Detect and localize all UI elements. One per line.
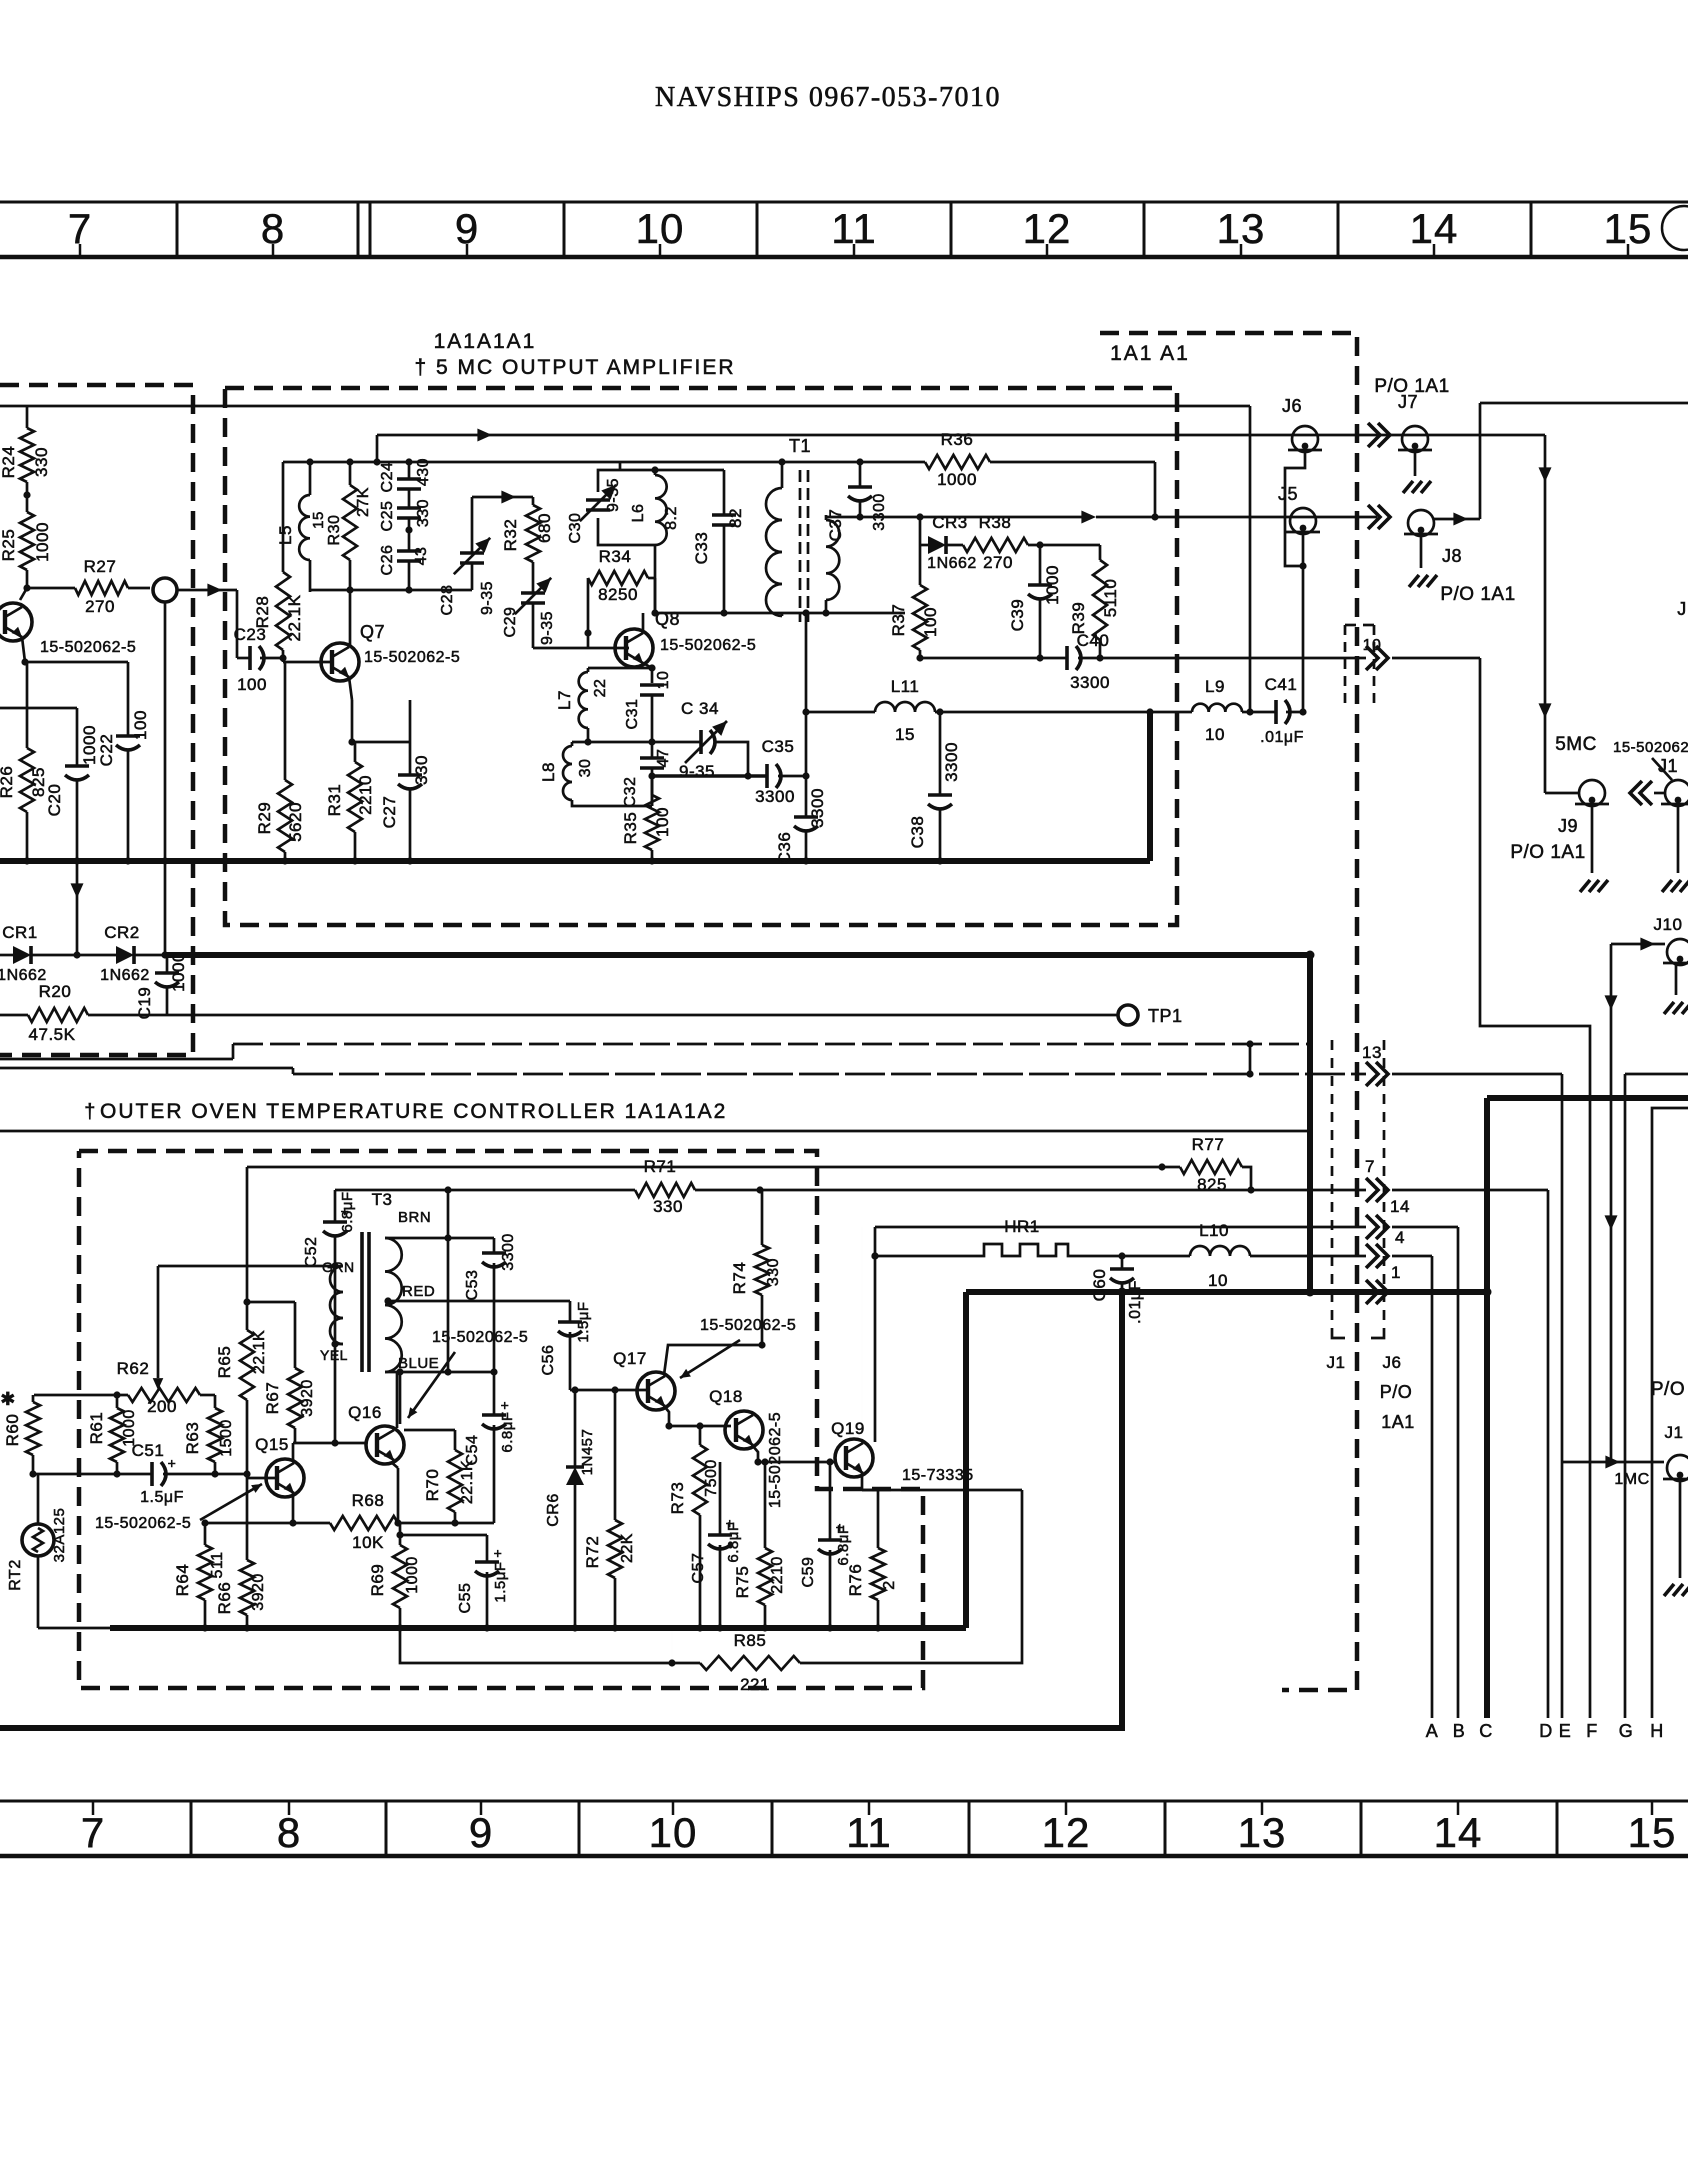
outer oven temperature controller title <box>84 1100 727 1123</box>
resistor R37 <box>889 545 940 658</box>
svg-text:1000: 1000 <box>80 725 99 765</box>
resistor R70 <box>404 1430 476 1523</box>
svg-text:270: 270 <box>85 597 115 616</box>
wire Q8 base line <box>533 645 629 648</box>
svg-text:R38: R38 <box>979 513 1012 532</box>
svg-text:F: F <box>1586 1721 1598 1741</box>
svg-text:L6: L6 <box>630 504 647 523</box>
bottom coordinate ruler band <box>0 1801 1688 1856</box>
svg-text:1000: 1000 <box>1043 565 1062 605</box>
capacitor C39 <box>1008 545 1062 658</box>
svg-text:9-35: 9-35 <box>479 581 496 615</box>
top ruler numbers <box>68 205 1653 257</box>
svg-text:15-502062-5: 15-502062-5 <box>40 639 136 656</box>
label P/O 1A1 top <box>1374 376 1449 397</box>
svg-text:3920: 3920 <box>299 1379 316 1417</box>
svg-text:8250: 8250 <box>598 585 638 604</box>
svg-text:1000: 1000 <box>404 1556 421 1594</box>
wire J7 down to J9 <box>1539 435 1579 793</box>
node CR1/CR2 <box>31 951 116 958</box>
svg-text:30: 30 <box>577 759 594 778</box>
controller ground bus heavy <box>110 1625 966 1631</box>
svg-text:1A1: 1A1 <box>1381 1412 1415 1432</box>
svg-text:C24: C24 <box>379 462 396 493</box>
capacitor C51 <box>132 1441 184 1506</box>
wire into amplifier with arrow <box>177 584 237 659</box>
wire C28 to R32 with arrow <box>472 491 533 504</box>
capacitor C55 <box>400 1535 509 1628</box>
diode CR1 <box>0 923 47 984</box>
wire Q19 collector <box>862 1227 879 1442</box>
svg-text:R24: R24 <box>0 446 18 479</box>
capacitor C37 <box>826 462 888 541</box>
svg-text:3300: 3300 <box>500 1233 517 1271</box>
svg-text:C26: C26 <box>379 545 396 576</box>
label Q15 part number <box>95 1484 262 1532</box>
svg-text:R26: R26 <box>0 766 16 799</box>
svg-text:15: 15 <box>310 511 327 529</box>
resistor R67 <box>247 1302 316 1443</box>
svg-text:R35: R35 <box>621 812 640 845</box>
svg-text:J5: J5 <box>1278 484 1298 504</box>
resistor R73 <box>668 1426 720 1628</box>
connector J1 bottom right <box>1663 1423 1688 1596</box>
resistor R29 <box>255 662 305 861</box>
svg-text:11: 11 <box>846 1809 892 1856</box>
svg-text:5620: 5620 <box>286 802 305 842</box>
label J9 part number <box>1613 739 1688 780</box>
capacitor C33 <box>655 470 745 613</box>
svg-text:Q15: Q15 <box>255 1435 289 1454</box>
wire Q6 emitter to C22 <box>25 662 128 730</box>
svg-text:H: H <box>1650 1721 1664 1741</box>
svg-text:C40: C40 <box>1077 631 1110 650</box>
connector J1 right edge <box>1654 756 1688 892</box>
detector bottom rail <box>916 654 1103 661</box>
controller bus dots <box>201 1624 881 1631</box>
svg-text:3300: 3300 <box>808 788 827 828</box>
wire bottom rail y776 <box>648 772 766 806</box>
variable capacitor C29 <box>502 578 556 645</box>
svg-text:C59: C59 <box>800 1557 817 1588</box>
svg-text:C56: C56 <box>540 1345 557 1376</box>
resistor R20 <box>0 982 167 1044</box>
wire Q16 emitter <box>391 1462 402 1527</box>
svg-text:R27: R27 <box>84 557 117 576</box>
svg-text:1000: 1000 <box>937 470 977 489</box>
resistor R25 <box>0 495 52 588</box>
svg-text:1A1 A1: 1A1 A1 <box>1110 342 1190 365</box>
svg-text:15-502062-5: 15-502062-5 <box>660 637 756 654</box>
svg-text:15-502062-5: 15-502062-5 <box>364 649 460 666</box>
svg-text:13: 13 <box>1238 1809 1287 1856</box>
svg-text:C39: C39 <box>1008 599 1027 632</box>
wire controller feed y1167 <box>247 1166 1162 1169</box>
svg-text:9-35: 9-35 <box>679 762 715 781</box>
wire YEL to Q16 base <box>331 1340 338 1446</box>
svg-text:.01μF: .01μF <box>1260 729 1304 746</box>
capacitor C52 <box>303 1190 356 1345</box>
svg-text:OUTER OVEN TEMPERATURE CONT: OUTER OVEN TEMPERATURE CONTROLLER 1A1A1A… <box>100 1100 727 1123</box>
node diode rail / bus <box>161 951 168 958</box>
svg-text:.01μF: .01μF <box>1127 1280 1144 1324</box>
wire emitter node <box>348 700 410 746</box>
connector J8 <box>1404 510 1462 587</box>
inductor L10 <box>1122 1221 1366 1290</box>
labels J1 J6 P/O 1A1 <box>1327 1353 1415 1432</box>
svg-text:C29: C29 <box>502 607 519 638</box>
capacitor C31 <box>624 671 672 742</box>
svg-text:C27: C27 <box>380 796 399 829</box>
capacitor C20 <box>45 708 99 861</box>
wire L8/C32 to rail <box>651 776 654 806</box>
heavy wire y1098 <box>1487 1095 1688 1101</box>
wire Q17 emitter <box>664 1406 673 1430</box>
svg-text:R85: R85 <box>734 1631 767 1650</box>
node Q8 emitter <box>648 664 655 671</box>
svg-text:J1: J1 <box>1658 756 1678 776</box>
node R38/C39 <box>1036 541 1043 548</box>
node divider/bus <box>1118 1288 1127 1297</box>
resistor R77 <box>1158 1135 1254 1194</box>
svg-text:C32: C32 <box>622 777 639 808</box>
svg-text:R62: R62 <box>117 1359 150 1378</box>
wire top rail y406 <box>0 406 1254 716</box>
wire pin10 line <box>1177 658 1590 1718</box>
svg-text:C31: C31 <box>624 699 641 730</box>
svg-text:R32: R32 <box>501 519 520 552</box>
label Q17 part number <box>680 1317 796 1378</box>
svg-text:C30: C30 <box>567 513 584 544</box>
wire Q17 collector <box>664 1345 762 1375</box>
svg-text:Q8: Q8 <box>655 609 680 629</box>
svg-text:CR1: CR1 <box>2 923 38 942</box>
svg-text:10: 10 <box>655 671 672 690</box>
svg-text:Q18: Q18 <box>709 1387 743 1406</box>
heavy divider loop <box>0 1292 1122 1728</box>
chevron J6-J7 <box>1368 423 1390 447</box>
wire drop H <box>1651 1460 1654 1718</box>
potentiometer R62 <box>117 1359 200 1416</box>
svg-text:Q16: Q16 <box>348 1403 382 1422</box>
svg-text:1.5μF: 1.5μF <box>575 1301 592 1342</box>
heavy wire C drop <box>1484 1098 1490 1718</box>
svg-text:3300: 3300 <box>871 493 888 531</box>
resistor R61 <box>87 1395 138 1474</box>
resistor R30 <box>326 462 372 592</box>
svg-text:R65: R65 <box>215 1346 234 1379</box>
svg-text:15-502062-5: 15-502062-5 <box>700 1317 796 1334</box>
svg-text:1.5μF: 1.5μF <box>140 1489 184 1506</box>
wire T1 secondary top to detector <box>826 511 1155 524</box>
resistor R69 <box>368 1523 421 1628</box>
svg-text:47.5K: 47.5K <box>29 1025 76 1044</box>
svg-text:7: 7 <box>81 1809 105 1856</box>
svg-text:C53: C53 <box>464 1270 481 1301</box>
wire bus to diode rail with arrow <box>71 861 84 955</box>
wire drop A from pin4 <box>1431 1256 1434 1718</box>
resistor R27 <box>27 557 150 616</box>
wire Q16 collector <box>396 1372 399 1428</box>
node C23/R28/base <box>279 654 286 661</box>
svg-text:P/O: P/O <box>1380 1382 1413 1402</box>
capacitor C35 <box>755 737 806 806</box>
svg-text:1: 1 <box>1391 1263 1401 1282</box>
resistor R64 <box>173 1523 226 1628</box>
wire y1059 segment <box>0 1044 233 1059</box>
resistor R32 <box>501 497 554 592</box>
svg-text:C37: C37 <box>826 509 845 542</box>
svg-text:2: 2 <box>881 1580 898 1589</box>
svg-text:R66: R66 <box>215 1582 234 1615</box>
svg-text:R28: R28 <box>253 596 272 629</box>
capacitor C24 <box>379 458 432 493</box>
svg-text:E: E <box>1559 1721 1572 1741</box>
svg-text:C41: C41 <box>1265 675 1298 694</box>
svg-text:22.1K: 22.1K <box>285 594 304 641</box>
svg-text:1500: 1500 <box>218 1419 235 1457</box>
label Q19 part number <box>902 1467 974 1484</box>
svg-text:CR2: CR2 <box>104 923 140 942</box>
resistor R31 <box>325 742 375 861</box>
resistor R68 <box>201 1491 494 1552</box>
test point TP1 <box>1118 1005 1183 1026</box>
svg-text:C35: C35 <box>762 737 795 756</box>
svg-text:C57: C57 <box>690 1553 707 1584</box>
svg-text:R72: R72 <box>583 1536 602 1569</box>
wire tank bottom rail y590 <box>310 586 472 593</box>
svg-text:1N457: 1N457 <box>579 1429 596 1476</box>
svg-text:5110: 5110 <box>1101 579 1120 618</box>
svg-text:P/O 1A1: P/O 1A1 <box>1374 376 1449 397</box>
svg-text:R36: R36 <box>941 430 974 449</box>
capacitor C26 <box>379 518 430 590</box>
resistor R38 <box>963 513 1100 572</box>
svg-text:100: 100 <box>237 675 267 694</box>
resistor R34 <box>588 547 648 633</box>
svg-text:100: 100 <box>131 710 150 740</box>
svg-text:R69: R69 <box>368 1564 387 1597</box>
svg-text:✱: ✱ <box>0 1389 16 1409</box>
diode CR6 <box>545 1386 596 1628</box>
svg-text:15: 15 <box>895 725 915 744</box>
svg-text:R63: R63 <box>183 1422 202 1455</box>
svg-text:P/O: P/O <box>1651 1379 1685 1400</box>
svg-text:8.2: 8.2 <box>663 506 680 530</box>
pin 7 chevron <box>1365 1157 1388 1202</box>
bottom ruler numbers <box>81 1801 1677 1856</box>
pin 4 chevron <box>1366 1228 1432 1268</box>
document title NAVSHIPS 0967-053-7010 <box>655 82 1001 113</box>
top ruler corner circle <box>1662 206 1688 250</box>
wire Q8 emitter <box>643 663 652 680</box>
svg-text:TP1: TP1 <box>1148 1006 1183 1026</box>
rail junction dots <box>306 458 863 465</box>
svg-text:10: 10 <box>1208 1271 1228 1290</box>
wire L7 top rail <box>588 667 652 670</box>
node R25/R27 <box>23 584 30 591</box>
svg-text:7500: 7500 <box>703 1459 720 1497</box>
svg-text:R73: R73 <box>668 1482 687 1515</box>
transistor Q15 <box>247 1435 304 1497</box>
resistor R26 <box>0 662 48 861</box>
wire Q7 collector <box>349 592 352 647</box>
svg-text:+: + <box>501 1397 510 1413</box>
svg-text:1N662: 1N662 <box>100 967 150 984</box>
wire Q7 emitter <box>349 677 352 742</box>
svg-text:† 5 MC OUTPUT AMPLIFIER: † 5 MC OUTPUT AMPLIFIER <box>415 356 736 379</box>
svg-text:L9: L9 <box>1205 677 1225 696</box>
svg-text:22.1K: 22.1K <box>459 1460 476 1504</box>
svg-text:G: G <box>1619 1721 1634 1741</box>
wire Q8 collector vertical x806 <box>643 609 810 779</box>
wire Q18 emitter <box>752 1445 836 1466</box>
heater HR1 <box>976 1217 1076 1256</box>
inductor L8 <box>539 742 652 806</box>
svg-text:A: A <box>1426 1721 1439 1741</box>
heavy vertical x966 <box>963 1292 969 1628</box>
svg-text:J6: J6 <box>1383 1353 1402 1372</box>
wire Q17 base line <box>570 1386 648 1393</box>
diode CR3 <box>916 513 976 572</box>
svg-text:330: 330 <box>415 499 432 527</box>
wire BLUE line <box>385 1368 498 1424</box>
svg-text:L10: L10 <box>1199 1221 1229 1240</box>
label P/O right box <box>1651 1379 1685 1400</box>
wire drop G <box>1625 1074 1688 1718</box>
bottom connector labels <box>1426 1721 1664 1741</box>
wire R69 to R85 <box>400 1628 676 1667</box>
svg-text:R75: R75 <box>733 1566 752 1599</box>
svg-text:R37: R37 <box>889 604 908 637</box>
transistor Q7 <box>283 622 460 681</box>
svg-text:B: B <box>1453 1721 1466 1741</box>
svg-text:J10: J10 <box>1654 915 1683 934</box>
wire y1068 segment <box>0 1068 293 1074</box>
svg-text:1MC: 1MC <box>1614 1471 1649 1488</box>
svg-text:14: 14 <box>1434 1809 1483 1856</box>
svg-text:BRN: BRN <box>398 1209 431 1226</box>
svg-text:L5: L5 <box>276 525 295 545</box>
svg-text:C25: C25 <box>379 501 396 532</box>
resistor R74 <box>730 1190 782 1349</box>
svg-text:100: 100 <box>653 807 672 837</box>
wire HR1 line <box>871 1252 976 1259</box>
transformer T3 <box>320 1190 439 1372</box>
variable capacitor C30 and inductor L6 tank <box>567 462 680 613</box>
svg-text:C28: C28 <box>439 585 456 616</box>
capacitor C25 <box>379 489 432 531</box>
capacitor C40 <box>1067 631 1177 692</box>
svg-text:R60: R60 <box>3 1414 22 1447</box>
svg-text:CR3: CR3 <box>932 513 968 532</box>
wire Q19 emitter <box>862 1473 1022 1548</box>
svg-text:R31: R31 <box>325 784 344 817</box>
wire J10 down line <box>1605 944 1618 1448</box>
svg-text:10K: 10K <box>352 1533 384 1552</box>
wire Q15 emitter <box>289 1493 296 1527</box>
svg-text:C33: C33 <box>692 532 711 565</box>
svg-text:4: 4 <box>1395 1228 1405 1247</box>
label T3 part number <box>408 1329 528 1418</box>
svg-text:15-502062-5: 15-502062-5 <box>767 1412 784 1508</box>
resistor R71 <box>635 1157 695 1216</box>
diode CR2 <box>100 923 165 984</box>
capacitor C38 <box>908 712 961 861</box>
svg-text:430: 430 <box>415 458 432 486</box>
svg-text:330: 330 <box>765 1258 782 1286</box>
svg-text:C: C <box>1479 1721 1493 1741</box>
capacitor C53 <box>448 1233 517 1372</box>
svg-text:1.5μF: 1.5μF <box>492 1561 509 1602</box>
resistor R72 <box>583 1390 636 1628</box>
resistor R65 <box>215 1167 268 1474</box>
transistor Q18 <box>709 1387 763 1449</box>
svg-text:+: + <box>836 1519 845 1535</box>
svg-text:†: † <box>84 1101 96 1123</box>
resistor R76 <box>846 1490 898 1628</box>
resistor R66 <box>215 1474 267 1628</box>
heavy vertical x1310 <box>1306 951 1315 1297</box>
capacitor C32 <box>622 742 672 807</box>
svg-text:1A1A1A1: 1A1A1A1 <box>434 330 537 353</box>
svg-text:C36: C36 <box>775 832 794 865</box>
svg-text:C55: C55 <box>457 1583 474 1614</box>
svg-text:C 34: C 34 <box>681 699 719 718</box>
svg-text:C52: C52 <box>303 1237 320 1268</box>
resistor R24 <box>0 406 51 495</box>
svg-text:7: 7 <box>1365 1157 1375 1176</box>
resistor R63 <box>183 1408 235 1474</box>
connector J10 <box>1611 915 1688 1014</box>
svg-text:43: 43 <box>413 547 430 566</box>
svg-text:511: 511 <box>209 1551 226 1578</box>
pin 14 chevron <box>1366 1197 1410 1239</box>
transistor Q8 <box>615 609 756 667</box>
svg-text:J: J <box>1677 599 1687 619</box>
resistor R85 <box>672 1490 1022 1694</box>
connector J5 <box>1278 484 1320 712</box>
svg-text:NAVSHIPS 0967-053-7010: NAVSHIPS 0967-053-7010 <box>655 82 1001 113</box>
svg-text:9-35: 9-35 <box>539 611 556 645</box>
svg-text:3920: 3920 <box>250 1573 267 1611</box>
svg-text:C22: C22 <box>97 734 116 767</box>
svg-text:1N662: 1N662 <box>927 555 977 572</box>
svg-text:+: + <box>168 1455 177 1471</box>
wire test point line y1015 <box>167 1014 1118 1017</box>
transformer T1 <box>766 436 839 622</box>
svg-text:680: 680 <box>535 513 554 543</box>
variable capacitor C34 <box>679 699 748 781</box>
svg-text:10: 10 <box>649 1809 698 1856</box>
resistor R60 <box>0 1389 40 1474</box>
svg-text:Q17: Q17 <box>613 1349 647 1368</box>
inductor L9 <box>1192 677 1250 744</box>
label P/O 1A1 under J8 <box>1440 584 1515 605</box>
svg-text:RT2: RT2 <box>7 1559 24 1590</box>
svg-text:T1: T1 <box>789 436 811 456</box>
wire y1044 long line <box>233 1040 1310 1077</box>
capacitor C23 <box>234 625 283 694</box>
label Q18 part number rotated <box>767 1412 784 1508</box>
svg-text:BLUE: BLUE <box>398 1355 439 1372</box>
svg-text:15-502062-5: 15-502062-5 <box>95 1515 191 1532</box>
wire drop B from pin14 <box>1457 1227 1460 1718</box>
svg-text:270: 270 <box>983 553 1013 572</box>
svg-text:15: 15 <box>1628 1809 1677 1856</box>
node Q6 emitter <box>21 658 28 665</box>
svg-text:3300: 3300 <box>1070 673 1110 692</box>
